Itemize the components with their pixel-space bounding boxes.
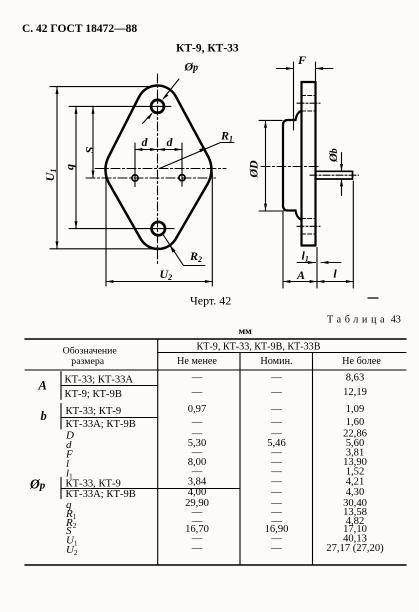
svg-text:Не более: Не более (342, 356, 381, 367)
extension line top hole center (69, 105, 171, 107)
side view: flange bottom edge (302, 244, 316, 246)
svg-text:U1: U1 (43, 169, 58, 182)
leader R2 arrow (170, 245, 176, 253)
svg-text:Øp: Øp (29, 477, 46, 492)
dimension l1 right arrow (321, 261, 328, 264)
table column separator 1 (157, 339, 159, 565)
svg-text:—: — (270, 477, 282, 488)
table header texts (63, 342, 382, 368)
dimension S line (92, 106, 94, 178)
extension line lead tip (l right) (352, 181, 354, 288)
svg-text:R2: R2 (189, 249, 202, 264)
svg-text:27,17 (27,20): 27,17 (27,20) (326, 543, 384, 554)
side view: flange plate right face (314, 82, 316, 246)
leader R1 arrow (199, 148, 207, 153)
table bottom border (25, 564, 406, 566)
svg-text:R1: R1 (220, 129, 233, 144)
side view: flange plate left face (300, 82, 302, 246)
svg-text:Øb: Øb (326, 148, 340, 163)
svg-text:—: — (270, 373, 282, 384)
svg-text:—: — (270, 387, 282, 398)
dimension U1 line (56, 87, 58, 249)
svg-text:0,97: 0,97 (188, 404, 207, 415)
dimension F arrows (286, 67, 323, 70)
side view: lead bottom edge (316, 178, 353, 180)
side view: top hole hidden edges (302, 95, 316, 97)
dimension A arrows (283, 280, 317, 283)
side view: lead axis (310, 174, 359, 176)
svg-text:—: — (270, 417, 282, 428)
leader Op lower segment (143, 114, 152, 124)
side view: cap outline (283, 111, 302, 221)
U2 extension line right (211, 172, 213, 286)
svg-text:КТ-33А; КТ-9В: КТ-33А; КТ-9В (66, 489, 136, 500)
dimension F line right (316, 68, 334, 70)
svg-text:—: — (191, 417, 203, 428)
svg-text:4,30: 4,30 (346, 487, 365, 498)
svg-text:A: A (296, 268, 305, 282)
svg-text:Не менее: Не менее (177, 356, 217, 367)
svg-text:КТ-33, КТ-9: КТ-33, КТ-9 (66, 479, 121, 490)
group Op separator (61, 488, 240, 490)
dimension S arrows (92, 106, 95, 178)
svg-text:q: q (63, 164, 77, 170)
svg-text:A: A (38, 379, 47, 393)
table group header underline (158, 352, 406, 354)
table column separator 2 (239, 353, 241, 566)
svg-text:3,84: 3,84 (188, 477, 207, 488)
dimension Ob upper line (341, 153, 343, 172)
svg-text:Обозначение: Обозначение (63, 346, 118, 357)
dimension F extension lines (293, 62, 295, 130)
front view: flange outline (105, 86, 211, 249)
dimension OD extension lines (259, 119, 282, 121)
svg-text:размера: размера (71, 356, 104, 367)
lead hole left (132, 175, 138, 181)
svg-text:Таблица 43: Таблица 43 (327, 315, 401, 326)
dimension OD line (265, 120, 267, 211)
dimension l line (317, 281, 353, 283)
svg-text:Черт. 42: Черт. 42 (190, 294, 231, 308)
dimension l1 left line (297, 262, 316, 264)
dimension l arrows (317, 280, 353, 283)
svg-text:—: — (270, 543, 282, 554)
group b tick (60, 404, 62, 430)
side view: lead top edge (316, 170, 353, 172)
extension line flange back (A right / l left) (316, 248, 318, 289)
leader R2 line (162, 233, 184, 266)
svg-text:4,00: 4,00 (188, 487, 207, 498)
dimension Ob arrows (340, 164, 343, 187)
lead hole left tick (134, 170, 136, 186)
extension line flange bottom (50, 248, 156, 250)
svg-text:КТ-9, КТ-33, КТ-9В, КТ-33В: КТ-9, КТ-33, КТ-9В, КТ-33В (197, 342, 321, 353)
table header bottom (25, 369, 406, 371)
group A tick (60, 372, 62, 400)
svg-text:12,19: 12,19 (343, 387, 367, 398)
svg-text:КТ-33; КТ-9: КТ-33; КТ-9 (66, 406, 122, 417)
svg-text:8,63: 8,63 (346, 373, 365, 384)
svg-text:—: — (270, 404, 282, 415)
dimension l1 arrow (308, 261, 315, 264)
svg-text:—: — (191, 387, 203, 398)
svg-text:d: d (167, 135, 174, 149)
side view: lead end cap (352, 171, 354, 179)
dimension d arrows (135, 148, 182, 151)
mounting hole bottom (152, 222, 165, 235)
leader Op upper arrow (162, 94, 168, 101)
table column separator 3 (312, 353, 314, 566)
svg-text:1,60: 1,60 (346, 417, 365, 428)
side view: bottom hole hidden edges (302, 218, 316, 220)
side view: bottom hole axis (297, 225, 320, 227)
svg-text:ØD: ØD (247, 160, 261, 179)
leader R1 landing (221, 142, 235, 144)
lead hole right tick (181, 170, 183, 186)
leader Op lower arrow (147, 113, 153, 120)
dimension U2 line (106, 281, 212, 283)
svg-text:4,21: 4,21 (346, 477, 365, 488)
svg-text:l1: l1 (302, 249, 309, 264)
svg-text:U2: U2 (160, 267, 173, 282)
dimension q arrows (75, 106, 78, 228)
dimension Ob lower line (341, 179, 343, 196)
svg-text:d: d (142, 135, 149, 149)
svg-text:Øp: Øp (184, 60, 199, 74)
svg-text:F: F (297, 53, 306, 67)
side view: top hole axis (297, 102, 320, 104)
front view: lead-hole axis (86, 177, 216, 179)
svg-text:КТ-9, КТ-33: КТ-9, КТ-33 (176, 43, 239, 55)
lead hole right (179, 175, 185, 181)
dimension d line (135, 149, 182, 151)
group Op tick (60, 478, 62, 499)
svg-text:КТ-33; КТ-33А: КТ-33; КТ-33А (65, 375, 134, 386)
leader Op upper segment (164, 79, 180, 98)
leader R1 line (160, 143, 221, 169)
svg-text:—: — (270, 487, 282, 498)
group b separator (61, 417, 158, 419)
dimension F line left (277, 68, 294, 70)
svg-text:КТ-33А; КТ-9В: КТ-33А; КТ-9В (66, 419, 136, 430)
mounting hole top (151, 100, 164, 113)
svg-text:—: — (191, 373, 203, 384)
svg-text:S: S (83, 146, 97, 153)
svg-text:КТ-9; КТ-9В: КТ-9; КТ-9В (65, 389, 122, 400)
side view: cap horizontal axis (261, 166, 320, 168)
page mark dash (368, 297, 378, 299)
svg-text:l: l (333, 267, 337, 281)
dimension d extension lines (134, 143, 136, 170)
svg-text:С. 42 ГОСТ 18472—88: С. 42 ГОСТ 18472—88 (22, 23, 137, 35)
svg-text:b: b (41, 409, 47, 423)
svg-text:мм: мм (239, 326, 253, 337)
extension line bottom hole center (69, 228, 174, 230)
extension line cap face (A left) (282, 212, 284, 288)
side view: flange top edge (302, 81, 316, 83)
front view: vertical center axis (157, 74, 159, 266)
table top border (25, 338, 406, 340)
dimension q line (75, 106, 77, 228)
svg-text:—: — (191, 543, 203, 554)
leader R2 landing (184, 265, 206, 267)
extension line flange top (50, 86, 152, 88)
dimension OD arrows (264, 120, 267, 211)
group A separator (61, 385, 158, 387)
svg-text:Номин.: Номин. (260, 356, 292, 367)
svg-text:1,09: 1,09 (346, 404, 365, 415)
dimension U2 arrows (106, 280, 212, 283)
dimension l1 right line (321, 262, 341, 264)
U2 extension line left (105, 174, 107, 286)
dimension U1 arrows (56, 87, 59, 249)
dimension A line (283, 281, 317, 283)
front view: horizontal geometric axis (95, 168, 226, 170)
